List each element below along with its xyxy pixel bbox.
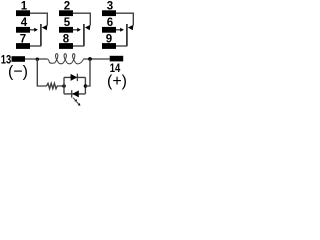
terminal 7 label (20, 33, 26, 45)
LED D2 branch wire (64, 93, 85, 95)
terminal 1 label (21, 1, 28, 13)
terminal 2 (59, 10, 73, 16)
wire node A down to resistor branch (37, 59, 46, 86)
terminal 13 (12, 56, 26, 62)
svg-text:(+): (+) (107, 73, 127, 90)
terminal 6 label (107, 17, 113, 29)
node D junction dot (84, 84, 88, 88)
LED D2 cathode bar (71, 90, 73, 97)
LED D2 triangle (72, 90, 79, 97)
diode box right wire (84, 77, 86, 94)
terminal 4 label (21, 17, 28, 29)
plus sign label (107, 73, 127, 90)
minus sign label (8, 64, 28, 81)
terminal 8 (59, 43, 73, 49)
terminal 5 label (64, 17, 71, 29)
resistor R1 (47, 83, 65, 88)
NO contact arrow from 3 (128, 25, 133, 30)
contact bar group 3 (126, 24, 128, 46)
diode D1 cathode bar (76, 74, 78, 81)
terminal 3 label (107, 1, 113, 13)
wire terminal 2 to contact (73, 13, 90, 25)
node C junction dot (62, 84, 66, 88)
coil L1 (43, 54, 83, 64)
svg-text:(−): (−) (8, 64, 28, 81)
wire coil to node B (83, 58, 110, 60)
terminal 13 label (1, 55, 12, 67)
terminal 1 (16, 10, 30, 16)
terminal 14 label (110, 63, 121, 75)
contact bar group 1 (40, 24, 42, 46)
wire node D to node B (85, 59, 90, 86)
NO contact arrow from 1 (42, 25, 48, 30)
contact bar group 2 (83, 24, 85, 46)
wire terminal 8 to contact bar (73, 45, 84, 47)
movable contact arrow from 4 (30, 29, 35, 31)
movable contact arrow from 6 (116, 29, 121, 31)
wire 13 to node A (25, 58, 47, 60)
terminal 9 label (106, 33, 112, 45)
movable contact arrowhead 4 (34, 28, 38, 32)
terminal 8 label (63, 33, 70, 45)
movable contact arrowhead 6 (120, 28, 124, 32)
node A junction dot (36, 58, 39, 61)
terminal 3 (102, 10, 116, 16)
terminal 6 (102, 27, 116, 33)
LED emission arrow 2 (77, 102, 81, 106)
movable contact arrowhead 5 (77, 28, 81, 32)
wire terminal 1 to contact (30, 13, 47, 25)
terminal 7 (16, 43, 30, 49)
wire terminal 9 to contact bar (116, 45, 127, 47)
diode D1 triangle (71, 74, 78, 81)
terminal 2 label (64, 1, 70, 13)
terminal 5 (59, 27, 73, 33)
diode D1 branch wire (64, 76, 85, 78)
movable contact arrow from 5 (73, 29, 78, 31)
diode box left wire (63, 77, 65, 94)
NO contact arrow from 2 (85, 25, 91, 30)
terminal 4 (16, 27, 30, 33)
terminal 9 (102, 43, 116, 49)
node B junction dot (88, 57, 92, 61)
terminal 14 (110, 56, 124, 62)
wire terminal 3 to contact (116, 13, 133, 25)
wire terminal 7 to contact bar (30, 45, 41, 47)
LED emission arrow 1 (73, 98, 77, 102)
